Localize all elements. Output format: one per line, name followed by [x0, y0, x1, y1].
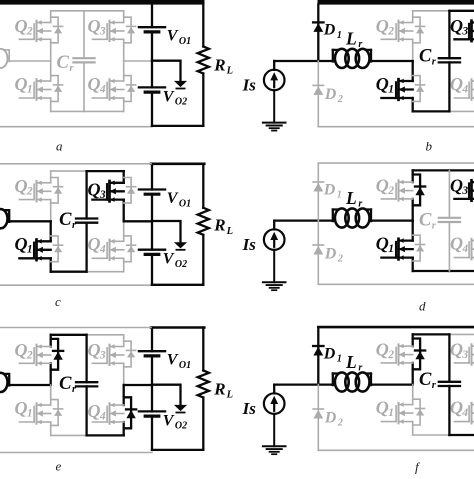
- (e) wire: bridge bottom rail: [51, 434, 124, 436]
- svg-text:R: R: [213, 379, 225, 398]
- (f) subfigure letter f: [415, 460, 421, 475]
- (f) wire: bridge top rail: [413, 333, 474, 335]
- svg-text:L: L: [345, 352, 357, 372]
- svg-text:2: 2: [26, 25, 33, 37]
- svg-text:O1: O1: [179, 36, 191, 47]
- (d) wire: bridge top rail: [413, 169, 474, 171]
- (c) ground (output reference arrow): [174, 242, 187, 250]
- (a) transistor Q3: [92, 20, 123, 41]
- svg-text:D: D: [323, 22, 336, 39]
- svg-text:4: 4: [99, 244, 106, 256]
- (b) label D2: [324, 86, 343, 105]
- svg-text:3: 3: [99, 349, 106, 361]
- (a) wire: output bottom rail: [152, 125, 203, 127]
- svg-text:L: L: [226, 390, 233, 401]
- (b) label L_r: [345, 28, 362, 50]
- (f) transistor Q1: [381, 402, 412, 424]
- (e) wire: output midpoint junction: [152, 385, 181, 405]
- svg-text:Q: Q: [376, 74, 389, 94]
- svg-text:1: 1: [337, 190, 342, 201]
- (a) label Q1: [15, 74, 33, 95]
- (a) wire: output stack vertical: [151, 4, 153, 126]
- (c) wire: left leg segments: [50, 171, 52, 272]
- (c) wire: bridge bottom rail: [51, 271, 124, 273]
- svg-text:Q: Q: [450, 340, 463, 360]
- (d) diode D1: [313, 164, 323, 221]
- svg-text:Q: Q: [88, 234, 101, 254]
- (c) transistor Q4: [92, 239, 123, 261]
- svg-text:4: 4: [461, 243, 468, 255]
- (f) diode D1: [313, 328, 323, 385]
- (d) transistor Q4 (partial, cut at right edge): [454, 238, 474, 260]
- (e) label R_L: [213, 379, 233, 400]
- (f) label Q1: [376, 398, 394, 419]
- (d) label Q2: [376, 176, 394, 197]
- svg-text:C: C: [59, 210, 72, 230]
- (a) body diode of Q3: [124, 17, 136, 43]
- (e) battery V_O1: [139, 351, 165, 356]
- svg-text:Q: Q: [88, 74, 101, 94]
- (b) capacitor C_r: [439, 11, 460, 112]
- svg-text:Q: Q: [88, 401, 101, 421]
- svg-text:R: R: [213, 55, 225, 74]
- (b) subfigure letter b: [426, 138, 433, 153]
- (c) label V_O1: [167, 190, 191, 209]
- svg-text:D: D: [324, 246, 337, 263]
- (a) battery V_O1: [139, 27, 165, 32]
- svg-text:O1: O1: [179, 360, 191, 371]
- (e) body diode of Q1: [51, 400, 63, 426]
- (a) wire: outer bottom rail (from D2, cut at left): [0, 126, 152, 128]
- (f) label L_r: [345, 352, 362, 374]
- (b) wire: top wire from D1: [318, 0, 474, 5]
- (b) diode D1: [313, 5, 323, 62]
- (c) wire: output bottom rail: [152, 284, 203, 286]
- (c) wire: grey top wire from D1 (cut at left): [0, 163, 151, 165]
- svg-text:C: C: [419, 210, 432, 230]
- (d) body diode of Q2: [413, 175, 426, 206]
- (e) wire: bridge midpoint to output: [124, 384, 152, 386]
- (a) label R_L: [213, 55, 233, 76]
- (b) label Q3: [450, 16, 468, 37]
- (e) transistor Q2: [19, 344, 50, 365]
- (e) wire: right leg segments: [123, 335, 125, 436]
- (b) wire: left leg segments: [412, 11, 414, 112]
- (f) body diode of Q2: [413, 339, 426, 370]
- svg-text:Q: Q: [376, 234, 389, 254]
- (d) ground (earth symbol under I_s): [263, 282, 286, 290]
- (b) inductor L_r: [333, 49, 371, 68]
- svg-text:2: 2: [26, 186, 33, 198]
- (a) wire: output midpoint junction: [152, 61, 181, 81]
- (b) transistor Q3 (partial, cut at right edge): [454, 20, 474, 41]
- (a) transistor Q4: [92, 79, 123, 101]
- (a) wire: bridge midpoint to output: [124, 60, 152, 62]
- (c) label Q2: [15, 176, 33, 197]
- (d) label D2: [324, 246, 343, 265]
- (b) wire: bridge bottom rail: [413, 110, 474, 112]
- svg-text:Q: Q: [376, 176, 389, 196]
- svg-text:1: 1: [27, 83, 33, 95]
- (b) transistor Q2: [381, 20, 412, 41]
- (a) resistor R_L: [198, 4, 209, 126]
- (a) body diode of Q2: [51, 17, 63, 43]
- svg-text:b: b: [426, 138, 433, 153]
- (c) subfigure letter c: [55, 294, 61, 309]
- (c) inductor L_r (partial, cut at left edge): [0, 209, 9, 228]
- (a) label C_r: [57, 53, 75, 74]
- (c) wire: output midpoint junction: [152, 221, 181, 242]
- svg-text:V: V: [167, 352, 179, 369]
- (f) wire: node horizontal: [274, 383, 413, 385]
- (f) label C_r: [419, 370, 437, 391]
- svg-text:Q: Q: [15, 340, 28, 360]
- svg-text:c: c: [55, 294, 61, 309]
- (d) label L_r: [345, 188, 362, 210]
- (a) body diode of Q1: [51, 76, 63, 102]
- svg-text:Q: Q: [450, 74, 463, 94]
- (a) wire: right leg segments: [123, 11, 125, 112]
- svg-text:r: r: [358, 363, 362, 374]
- svg-text:Q: Q: [15, 234, 28, 254]
- (a) wire: node to bridge left leg: [9, 60, 51, 62]
- (c) wire: output stack vertical: [151, 164, 153, 285]
- (d) wire: top wire from D1: [318, 162, 474, 164]
- svg-text:L: L: [345, 188, 357, 208]
- (c) capacitor C_r: [76, 171, 97, 272]
- (a) label Q3: [88, 16, 106, 37]
- svg-text:D: D: [324, 410, 337, 427]
- (c) body diode of Q1: [51, 236, 63, 262]
- svg-text:2: 2: [387, 25, 394, 37]
- (f) transistor Q2: [381, 344, 412, 365]
- (a) body diode of Q4: [124, 76, 136, 102]
- (d) label Q4: [450, 234, 468, 255]
- (e) wire: output stack vertical: [151, 328, 153, 450]
- (c) wire: right leg segments: [123, 171, 125, 272]
- svg-text:Is: Is: [242, 399, 257, 418]
- (e) label C_r: [59, 374, 77, 395]
- (a) label Q2: [15, 16, 33, 37]
- (c) wire: top output wire: [151, 163, 204, 166]
- (e) label Q2: [15, 340, 33, 361]
- (f) inductor L_r: [333, 372, 371, 391]
- svg-text:C: C: [57, 53, 70, 73]
- (f) body diode of Q1: [413, 399, 425, 425]
- (a) label V_O1: [167, 28, 191, 47]
- svg-text:C: C: [419, 370, 432, 390]
- svg-text:L: L: [226, 66, 233, 77]
- (e) wire: outer bottom rail (from D2, cut at left): [0, 452, 152, 454]
- (b) transistor Q4 (partial, cut at right edge): [454, 79, 474, 101]
- (f) current source I_s: [264, 385, 285, 447]
- svg-text:2: 2: [337, 418, 343, 429]
- svg-text:1: 1: [337, 354, 342, 365]
- svg-text:V: V: [167, 28, 179, 45]
- svg-text:Q: Q: [450, 16, 463, 36]
- (c) body diode of Q4: [124, 236, 136, 262]
- (f) capacitor C_r: [439, 334, 460, 435]
- (f) label D2: [324, 410, 343, 429]
- svg-text:O1: O1: [179, 198, 191, 209]
- (e) resistor R_L: [198, 328, 209, 450]
- (a) ground (output reference arrow): [174, 81, 187, 89]
- (b) wire: bridge top rail: [413, 10, 474, 12]
- (b) transistor Q1: [381, 79, 412, 101]
- (b) wire: outer bottom rail from D2: [318, 126, 474, 128]
- (d) wire: outer bottom rail from D2: [318, 283, 474, 285]
- (e) body diode of Q4: [124, 397, 137, 428]
- svg-text:C: C: [419, 47, 432, 67]
- svg-text:2: 2: [337, 94, 343, 105]
- (f) wire: top wire from D1: [318, 326, 474, 329]
- (c) body diode of Q3: [124, 178, 136, 204]
- (a) inductor L_r (partial, cut at left edge): [0, 49, 9, 68]
- svg-text:3: 3: [99, 189, 106, 201]
- svg-text:R: R: [213, 216, 225, 235]
- (c) wire: node to bridge left leg: [9, 220, 51, 222]
- svg-text:3: 3: [99, 25, 106, 37]
- (c) label C_r: [59, 210, 77, 231]
- (e) wire: bridge top rail: [51, 334, 124, 336]
- svg-text:L: L: [345, 28, 357, 48]
- svg-text:Q: Q: [15, 16, 28, 36]
- svg-text:Q: Q: [376, 398, 389, 418]
- (d) capacitor C_r: [439, 170, 460, 271]
- (e) wire: grey top wire from D1 (cut at left): [0, 327, 151, 329]
- (b) label C_r: [419, 47, 437, 68]
- (a) wire: left leg segments: [50, 11, 52, 112]
- (e) label Q1: [15, 398, 33, 419]
- (b) body diode of Q1: [413, 76, 425, 102]
- svg-text:C: C: [59, 374, 72, 394]
- (c) battery V_O1: [139, 190, 165, 195]
- (a) transistor Q2: [19, 20, 50, 41]
- svg-text:1: 1: [388, 243, 394, 255]
- (e) subfigure letter e: [56, 459, 62, 474]
- svg-text:Is: Is: [242, 235, 257, 254]
- (c) label V_O2: [163, 251, 187, 270]
- svg-text:O2: O2: [175, 259, 187, 270]
- svg-text:Q: Q: [376, 16, 389, 36]
- (b) label D1: [323, 22, 342, 41]
- svg-text:Q: Q: [376, 340, 389, 360]
- (e) body diode of Q3: [124, 341, 136, 367]
- svg-text:Q: Q: [88, 180, 101, 200]
- (a) wire: bridge bottom rail: [51, 110, 124, 112]
- (b) diode D2: [313, 61, 323, 127]
- (d) subfigure letter d: [419, 298, 426, 313]
- svg-text:Q: Q: [15, 398, 28, 418]
- svg-text:3: 3: [461, 349, 468, 361]
- (a) capacitor C_r: [73, 11, 94, 112]
- svg-text:O2: O2: [175, 97, 187, 108]
- (c) wire: bridge top rail: [51, 170, 124, 172]
- svg-text:O2: O2: [175, 421, 187, 432]
- (d) diode D2: [313, 221, 323, 285]
- (d) transistor Q2: [381, 180, 412, 201]
- svg-text:4: 4: [461, 83, 468, 95]
- (c) label Q3: [88, 180, 106, 201]
- svg-text:d: d: [419, 298, 426, 313]
- (a) subfigure letter a: [56, 138, 63, 153]
- svg-text:Q: Q: [88, 340, 101, 360]
- (e) transistor Q4: [92, 403, 123, 425]
- (c) label Q1: [15, 234, 33, 255]
- (f) wire: bridge bottom rail: [413, 434, 474, 436]
- (c) transistor Q1: [19, 239, 50, 261]
- (a) wire: bridge top rail: [51, 10, 124, 12]
- svg-text:Q: Q: [450, 176, 463, 196]
- (f) wire: outer bottom rail from D2: [318, 449, 474, 451]
- (e) battery V_O2: [139, 411, 165, 416]
- (e) label V_O1: [167, 352, 191, 371]
- (e) wire: node to bridge left leg: [9, 384, 51, 386]
- (b) wire: node horizontal: [274, 60, 413, 62]
- svg-text:4: 4: [99, 410, 106, 422]
- (f) label Q4: [450, 398, 468, 419]
- svg-text:2: 2: [387, 185, 394, 197]
- (f) label Q3: [450, 340, 468, 361]
- (c) label R_L: [213, 216, 233, 237]
- (d) transistor Q1: [381, 238, 412, 260]
- svg-text:V: V: [167, 190, 179, 207]
- (f) label Q2: [376, 340, 394, 361]
- (e) body diode of Q2: [51, 339, 64, 370]
- (b) label Q1: [376, 74, 394, 95]
- svg-text:D: D: [324, 86, 337, 103]
- (d) label Q1: [376, 234, 394, 255]
- svg-text:2: 2: [387, 349, 394, 361]
- (d) label C_r: [419, 210, 437, 231]
- (d) transistor Q3 (partial, cut at right edge): [454, 180, 474, 201]
- (a) label Q4: [88, 74, 106, 95]
- svg-text:V: V: [163, 88, 175, 105]
- svg-text:a: a: [56, 138, 63, 153]
- (d) wire: left leg segments: [412, 170, 414, 271]
- (c) body diode of Q2: [51, 178, 63, 204]
- (e) transistor Q3: [92, 344, 123, 365]
- svg-text:3: 3: [461, 25, 468, 37]
- (a) wire: top output wire: [0, 0, 205, 5]
- (f) transistor Q3 (partial, cut at right edge): [454, 344, 474, 365]
- (f) label I_s: [242, 399, 257, 418]
- svg-text:1: 1: [388, 407, 394, 419]
- svg-text:Q: Q: [15, 74, 28, 94]
- (e) ground (output reference arrow): [174, 405, 187, 413]
- (d) wire: node horizontal: [274, 219, 413, 221]
- (e) wire: left leg segments: [50, 335, 52, 436]
- svg-text:1: 1: [337, 30, 342, 41]
- (d) label D1: [323, 181, 342, 200]
- (a) label V_O2: [163, 88, 187, 107]
- svg-text:4: 4: [461, 407, 468, 419]
- svg-text:1: 1: [27, 407, 33, 419]
- (d) current source I_s: [264, 221, 285, 283]
- (f) transistor Q4 (partial, cut at right edge): [454, 402, 474, 424]
- (d) inductor L_r: [333, 208, 371, 227]
- (b) label Q4: [450, 74, 468, 95]
- (e) label Q3: [88, 340, 106, 361]
- (b) ground (earth symbol under I_s): [263, 123, 286, 131]
- svg-text:Q: Q: [450, 398, 463, 418]
- (c) label Q4: [88, 234, 106, 255]
- (a) transistor Q1: [19, 79, 50, 101]
- (e) capacitor C_r: [76, 335, 97, 436]
- svg-text:3: 3: [461, 185, 468, 197]
- (b) body diode of Q2: [413, 17, 425, 43]
- (e) label V_O2: [163, 412, 187, 431]
- svg-text:Q: Q: [450, 234, 463, 254]
- (c) wire: outer bottom rail (from D2, cut at left): [0, 284, 152, 286]
- (e) wire: output bottom rail: [152, 449, 203, 451]
- (e) inductor L_r (partial, cut at left edge): [0, 373, 9, 392]
- (e) transistor Q1: [19, 403, 50, 425]
- svg-text:Is: Is: [242, 76, 257, 95]
- svg-text:r: r: [358, 39, 362, 50]
- svg-text:e: e: [56, 459, 62, 474]
- svg-text:1: 1: [27, 244, 33, 256]
- svg-text:r: r: [358, 199, 362, 210]
- (b) label I_s: [242, 76, 257, 95]
- (b) label Q2: [376, 16, 394, 37]
- svg-text:V: V: [163, 412, 175, 429]
- (c) resistor R_L: [198, 164, 209, 285]
- svg-text:4: 4: [99, 83, 106, 95]
- (c) transistor Q3: [92, 181, 123, 202]
- (d) wire: bridge bottom rail: [413, 270, 474, 272]
- (d) body diode of Q1: [413, 235, 425, 261]
- (c) wire: bridge midpoint to output: [124, 220, 152, 222]
- (f) wire: left leg segments: [412, 334, 414, 435]
- (a) battery V_O2: [139, 87, 165, 92]
- (e) label Q4: [88, 401, 106, 422]
- svg-text:Q: Q: [15, 176, 28, 196]
- (f) label D1: [323, 345, 342, 364]
- (e) wire: top output wire: [151, 326, 204, 329]
- svg-text:2: 2: [26, 349, 33, 361]
- svg-text:2: 2: [337, 254, 343, 265]
- svg-text:Q: Q: [88, 16, 101, 36]
- (d) label Q3: [450, 176, 468, 197]
- (d) label I_s: [242, 235, 257, 254]
- svg-text:D: D: [323, 345, 336, 362]
- (c) battery V_O2: [139, 250, 165, 255]
- (b) current source I_s: [264, 61, 285, 123]
- (c) transistor Q2: [19, 181, 50, 202]
- (f) diode D2: [313, 385, 323, 451]
- svg-text:L: L: [226, 226, 233, 237]
- svg-text:V: V: [163, 251, 175, 268]
- svg-text:D: D: [323, 181, 336, 198]
- svg-text:1: 1: [388, 83, 394, 95]
- (f) ground (earth symbol under I_s): [263, 446, 286, 454]
